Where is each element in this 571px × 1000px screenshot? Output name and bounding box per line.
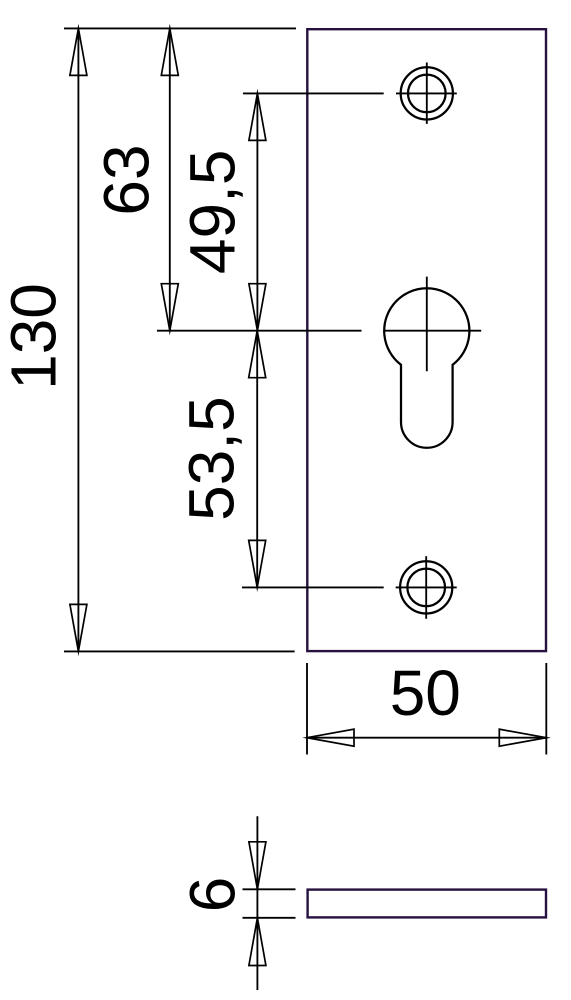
extension line side bottom: [243, 917, 296, 919]
top screw hole crosshair horizontal: [396, 92, 457, 94]
bottom screw hole crosshair horizontal: [396, 586, 457, 588]
arrow 49,5 top: [249, 93, 266, 140]
arrow 6 lower: [249, 918, 266, 966]
arrow 130 top: [70, 28, 87, 75]
keyhole circle and stem: [384, 288, 469, 447]
dimension line 63: [169, 28, 171, 330]
arrow 53,5 bottom: [249, 540, 266, 587]
svg-text:63: 63: [91, 144, 163, 215]
bottom screw hole outer circle: [400, 561, 452, 613]
dimension line 53,5: [256, 331, 258, 588]
arrow 49,5 bottom: [249, 284, 266, 331]
svg-text:50: 50: [390, 657, 461, 729]
extension line side top: [243, 888, 296, 890]
arrow 63 top: [161, 28, 178, 75]
keyhole crosshair horizontal: [384, 330, 482, 332]
top screw hole outer circle: [401, 67, 453, 119]
arrow 50 left: [307, 729, 354, 746]
top screw hole inner circle: [408, 75, 446, 113]
extension line top: [64, 27, 296, 29]
dimension line 6: [256, 816, 258, 990]
arrow 130 bottom: [70, 604, 87, 651]
extension line bottom hole level: [242, 586, 384, 588]
dimension line 130: [77, 28, 79, 651]
extension line top hole level: [243, 92, 384, 94]
bottom screw hole crosshair vertical: [425, 556, 427, 619]
svg-text:130: 130: [0, 283, 70, 390]
keyhole crosshair vertical: [426, 277, 428, 372]
extension line bottom: [64, 650, 295, 652]
top screw hole crosshair vertical: [426, 63, 428, 124]
dimension line 49,5: [256, 93, 258, 330]
dimension line 50: [307, 737, 546, 739]
side view plate outline: [308, 890, 546, 918]
arrow 63 bottom: [161, 284, 178, 331]
arrow 6 upper: [249, 842, 266, 890]
arrow 50 right: [499, 729, 546, 746]
svg-text:49,5: 49,5: [177, 150, 249, 275]
extension line 50 left: [306, 663, 308, 755]
bottom screw hole inner circle: [407, 569, 445, 607]
svg-text:53,5: 53,5: [175, 396, 247, 521]
arrow 53,5 top: [249, 331, 266, 378]
extension line 50 right: [545, 663, 547, 755]
plate outline front view: [307, 29, 546, 651]
svg-text:6: 6: [177, 877, 249, 913]
extension line keyhole level: [157, 330, 362, 332]
